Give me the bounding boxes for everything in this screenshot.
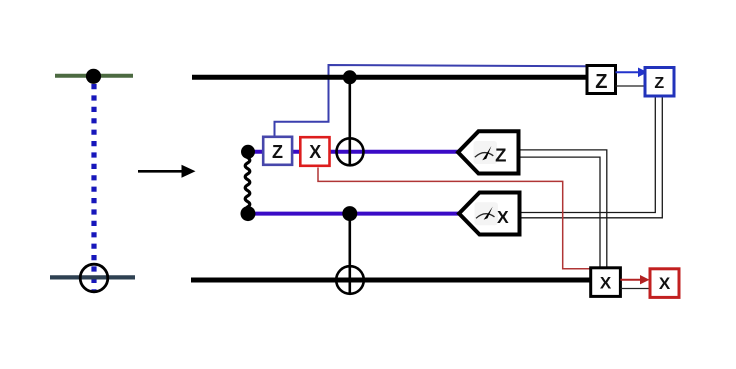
wire: qubit 2 (purple) bbox=[248, 150, 459, 154]
wire: qubit 4 (bottom, thick black) bbox=[191, 278, 591, 283]
arrow: maps-to bbox=[138, 170, 183, 173]
classical wire from M_Z measurement down to X box (double line) bbox=[519, 150, 607, 268]
svg-text:X: X bbox=[600, 274, 612, 293]
EPR dot bottom bbox=[241, 206, 256, 221]
box X (black) on qubit 4 bbox=[591, 268, 621, 297]
svg-text:Z: Z bbox=[654, 75, 664, 92]
classical wire from M_X measurement up to blue Z box (double line) bbox=[520, 96, 656, 213]
red wire from X gate down/right to bottom X box bbox=[318, 168, 591, 269]
CNOT 1 control dot on qubit 1 bbox=[343, 70, 357, 84]
measurement M_X bbox=[459, 193, 520, 235]
CNOT target (left figure) bbox=[80, 264, 108, 292]
CNOT 2 vertical bbox=[348, 214, 351, 294]
svg-text:X: X bbox=[309, 142, 321, 162]
svg-text:X: X bbox=[497, 207, 509, 227]
black link to output Z bbox=[616, 85, 646, 87]
CNOT 2 target on qubit 4 bbox=[336, 266, 364, 294]
wire: control qubit (green, left figure) bbox=[55, 74, 133, 78]
blue wire from Z gate up to qubit-1 Z box bbox=[275, 65, 588, 138]
EPR dot top bbox=[241, 145, 255, 159]
wire: qubit 1 (top, thick black) bbox=[192, 75, 587, 80]
gate Z (blue box) on qubit 2 bbox=[263, 137, 292, 165]
CNOT 1 vertical bbox=[348, 77, 351, 165]
wire: target qubit (slate, left figure) bbox=[50, 275, 135, 279]
box Z (blue, output) bbox=[645, 68, 674, 97]
svg-text:Z: Z bbox=[495, 144, 506, 165]
CNOT 2 control dot on qubit 3 bbox=[342, 206, 357, 221]
red arrow to output X bbox=[620, 279, 641, 281]
EPR squiggle bbox=[245, 158, 250, 208]
CNOT 1 target on qubit 2 bbox=[337, 138, 364, 165]
svg-text:X: X bbox=[659, 274, 671, 293]
black link to output X bbox=[620, 288, 650, 290]
box Z (black) on qubit 1 bbox=[587, 66, 616, 94]
blue arrow to output Z bbox=[616, 71, 640, 73]
svg-text:Z: Z bbox=[272, 142, 283, 162]
wire: qubit 3 (purple) bbox=[248, 212, 460, 216]
control dot (left figure) bbox=[86, 69, 101, 84]
measurement M_Z bbox=[458, 131, 519, 173]
svg-text:Z: Z bbox=[595, 71, 607, 93]
entanglement dotted line bbox=[91, 84, 96, 293]
box X (red, output) bbox=[650, 269, 679, 298]
gate X (red box) on qubit 2 bbox=[300, 137, 329, 166]
